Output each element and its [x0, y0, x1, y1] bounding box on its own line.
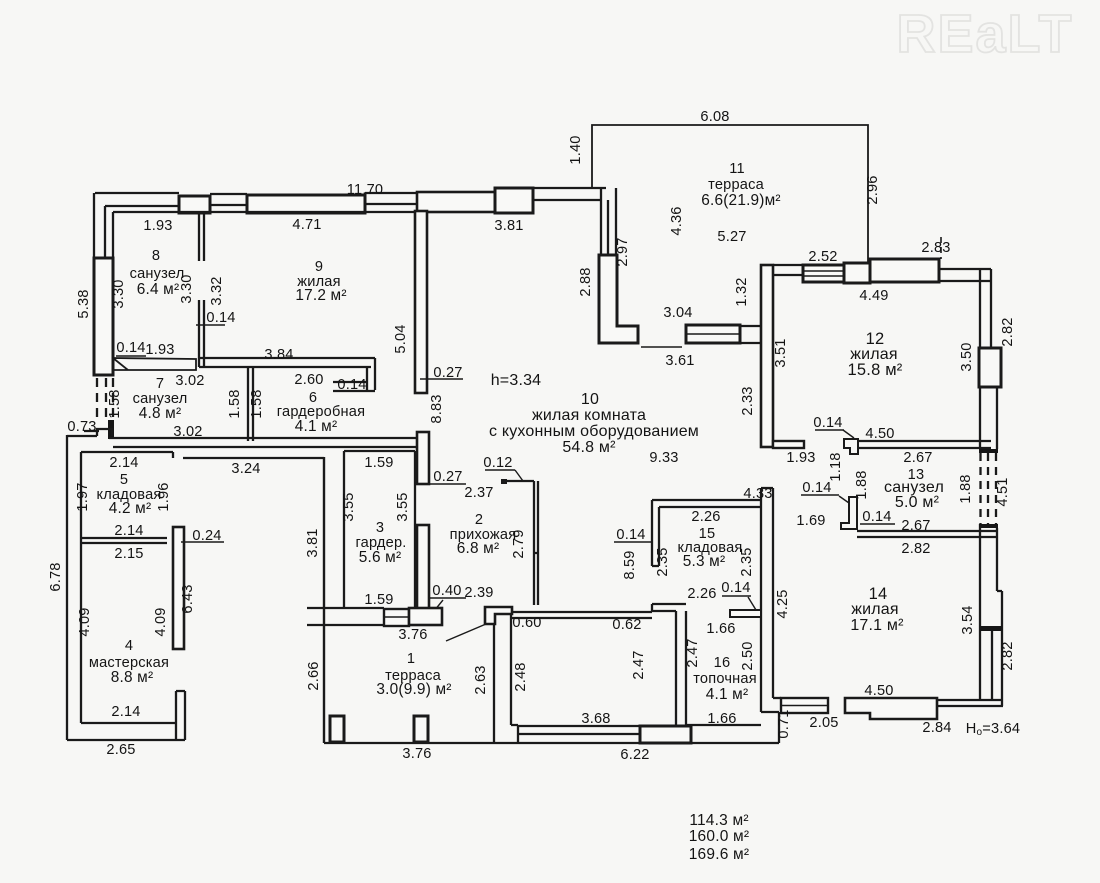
leader 0.12 [515, 470, 523, 481]
svg-text:3.30: 3.30 [179, 274, 195, 303]
window room 10 right tall with L foot [599, 255, 638, 343]
dim line 0.12 [485, 469, 515, 471]
wall: inner top line rooms 8-9 [113, 211, 415, 213]
wall: central column room10/12 upper [761, 265, 773, 447]
svg-text:2.66: 2.66 [306, 661, 322, 690]
svg-text:1.59: 1.59 [364, 592, 393, 608]
wall: top exterior rooms 8-9 outer line [95, 192, 179, 194]
svg-text:4.51: 4.51 [995, 477, 1011, 506]
svg-text:8.83: 8.83 [429, 394, 445, 423]
svg-text:4.25: 4.25 [775, 589, 791, 618]
window 2.52 [803, 265, 844, 282]
wall: prihozhaya right [534, 481, 538, 605]
svg-text:3.61: 3.61 [665, 353, 694, 369]
svg-text:17.1 м²: 17.1 м² [850, 617, 904, 634]
svg-text:0.60: 0.60 [512, 615, 541, 631]
wall: left exterior upper block [94, 193, 179, 258]
window left wall tall [94, 258, 113, 375]
svg-text:3.50: 3.50 [959, 342, 975, 371]
window 2.83 [870, 259, 939, 282]
svg-text:2.14: 2.14 [114, 523, 143, 539]
svg-text:6.08: 6.08 [700, 109, 729, 125]
wall: top wall room 10 right part [533, 188, 606, 200]
wall: shelf divider 15/16 [730, 610, 761, 617]
svg-text:3.02: 3.02 [173, 424, 202, 440]
wall: room 10 bottom band [512, 612, 652, 618]
terrace 11 outline [592, 125, 868, 262]
wall: room 10 top-right corner down [601, 188, 616, 255]
window 3.04 opening [686, 325, 740, 343]
svg-text:4.49: 4.49 [859, 288, 888, 304]
svg-text:6.43: 6.43 [180, 584, 196, 613]
svg-text:17.2 м²: 17.2 м² [295, 287, 346, 304]
svg-text:3.24: 3.24 [231, 461, 260, 477]
svg-text:2.67: 2.67 [903, 450, 932, 466]
svg-text:3.30: 3.30 [111, 279, 127, 308]
wall: room 4 right lower [176, 691, 185, 740]
svg-text:9: 9 [315, 259, 323, 275]
dim line 0.14 san13 [801, 494, 839, 496]
svg-text:2: 2 [475, 512, 483, 528]
svg-text:0.40: 0.40 [432, 583, 461, 599]
wall: central block left [323, 457, 325, 743]
wall: room 14 bottom left line [773, 697, 781, 699]
svg-text:0.27: 0.27 [433, 469, 462, 485]
svg-text:6.22: 6.22 [620, 747, 649, 763]
leader 0.14 shelf [748, 597, 756, 610]
svg-text:5.38: 5.38 [76, 289, 92, 318]
wall: tall divider right of rooms 5/4 [173, 527, 184, 649]
svg-text:6.6(21.9)м²: 6.6(21.9)м² [701, 192, 781, 209]
svg-text:2.14: 2.14 [111, 704, 140, 720]
svg-text:4.71: 4.71 [292, 217, 321, 233]
counter room 7 [113, 358, 196, 370]
svg-text:4.2 м²: 4.2 м² [109, 500, 152, 517]
svg-text:0.14: 0.14 [802, 480, 831, 496]
svg-text:5.04: 5.04 [393, 324, 409, 353]
post 2 terrace [414, 716, 428, 742]
svg-text:6.4 м²: 6.4 м² [137, 281, 180, 298]
svg-text:8.8 м²: 8.8 м² [111, 669, 154, 686]
svg-text:1.93: 1.93 [786, 450, 815, 466]
wall: right exterior lower [937, 524, 1003, 706]
wall: bottom of rooms 3/2 [307, 608, 384, 625]
svg-text:2.52: 2.52 [808, 249, 837, 265]
dim line 0.27 divider [429, 483, 466, 485]
svg-text:3.55: 3.55 [341, 492, 357, 521]
dim line 0.40 [429, 597, 466, 599]
svg-text:2.88: 2.88 [578, 267, 594, 296]
svg-text:2.47: 2.47 [631, 650, 647, 679]
svg-text:2.05: 2.05 [809, 715, 838, 731]
wall: stub 1.93 right of column [773, 441, 804, 448]
svg-text:4.36: 4.36 [669, 206, 685, 235]
window 4.71 [247, 195, 365, 213]
svg-text:0.12: 0.12 [483, 455, 512, 471]
svg-text:2.67: 2.67 [901, 518, 930, 534]
jamb room 12 door [844, 439, 858, 454]
svg-text:4.1 м²: 4.1 м² [706, 686, 749, 703]
wall: kladovaya 15 top [652, 500, 761, 507]
svg-text:2.82: 2.82 [1000, 317, 1016, 346]
svg-text:4: 4 [125, 638, 133, 654]
door threshold room 14 2.05 [781, 698, 828, 713]
door threshold room 3 [384, 609, 409, 626]
svg-text:1.66: 1.66 [707, 711, 736, 727]
svg-text:3.55: 3.55 [395, 492, 411, 521]
svg-text:2.14: 2.14 [109, 455, 138, 471]
svg-text:1.66: 1.66 [706, 621, 735, 637]
svg-text:0.62: 0.62 [612, 617, 641, 633]
leader 0.14 room12 [843, 430, 854, 438]
svg-text:1.97: 1.97 [75, 482, 91, 511]
wall: top right of window to divider [365, 193, 417, 204]
svg-text:8.59: 8.59 [622, 550, 638, 579]
wall: corner piece right of terrace door [485, 607, 512, 624]
svg-text:4.50: 4.50 [864, 683, 893, 699]
svg-text:0.14: 0.14 [616, 527, 645, 543]
wall: topochnaya 16 top-left L [652, 604, 686, 611]
wall: divider rooms 7/6 [248, 367, 253, 441]
wall: divider rooms 8/9 upper [199, 213, 204, 261]
window top room 10 [495, 188, 533, 213]
svg-text:3.02: 3.02 [175, 373, 204, 389]
svg-text:11.70: 11.70 [347, 182, 383, 198]
svg-text:2.82: 2.82 [1000, 641, 1016, 670]
svg-text:2.60: 2.60 [294, 372, 323, 388]
wall: stub above corner 0.73 [108, 420, 114, 439]
svg-text:4.50: 4.50 [865, 426, 894, 442]
svg-text:2.15: 2.15 [114, 546, 143, 562]
svg-text:с кухонным оборудованием: с кухонным оборудованием [489, 423, 699, 440]
window top-left small [179, 196, 210, 213]
wall: room 12 bottom 4.50 [857, 441, 991, 448]
svg-text:5.0 м²: 5.0 м² [895, 494, 940, 511]
chimney block bottom band [640, 726, 691, 743]
svg-text:169.6 м²: 169.6 м² [689, 846, 750, 863]
wall: bottom topochnaya [686, 724, 761, 726]
svg-text:Но=3.64: Но=3.64 [966, 721, 1020, 738]
svg-text:2.35: 2.35 [739, 547, 755, 576]
wall piece right of threshold [409, 608, 442, 625]
svg-text:3.0(9.9) м²: 3.0(9.9) м² [376, 681, 451, 698]
svg-text:1.58: 1.58 [107, 389, 123, 418]
svg-text:6.78: 6.78 [48, 562, 64, 591]
svg-text:2.37: 2.37 [464, 485, 493, 501]
dim line 0.14 san13 lower [860, 523, 895, 525]
svg-text:2.39: 2.39 [464, 585, 493, 601]
svg-text:1.40: 1.40 [568, 135, 584, 164]
svg-text:3.51: 3.51 [773, 338, 789, 367]
wall: prihozhaya top [502, 480, 534, 482]
dim line 0.14 counter [116, 355, 146, 357]
svg-text:жилая: жилая [851, 601, 899, 618]
svg-text:10: 10 [581, 391, 599, 408]
wall: terrace 1 right [494, 614, 518, 742]
svg-text:2.63: 2.63 [473, 665, 489, 694]
svg-text:3.81: 3.81 [494, 218, 523, 234]
svg-text:3.76: 3.76 [398, 627, 427, 643]
leader 0.14 san13 [839, 496, 849, 503]
svg-text:2.83: 2.83 [921, 240, 950, 256]
wall: band A bottom of rooms 7/6 [67, 429, 417, 447]
svg-text:0.24: 0.24 [192, 528, 221, 544]
wall: topochnaya 16 left [676, 611, 686, 726]
svg-text:0.14: 0.14 [862, 509, 891, 525]
leader terrace door [446, 624, 486, 641]
svg-text:2.47: 2.47 [685, 638, 701, 667]
wall: central column rooms 15/16 vs 14 [761, 488, 773, 712]
svg-text:4.09: 4.09 [153, 607, 169, 636]
svg-text:0.71: 0.71 [776, 709, 792, 738]
wall: right end of 3.84 wall down [333, 358, 375, 391]
svg-text:h=3.34: h=3.34 [491, 372, 542, 389]
svg-text:0.14: 0.14 [206, 310, 235, 326]
svg-text:9.33: 9.33 [649, 450, 678, 466]
dashed tick above window 2.83 [940, 237, 942, 259]
svg-text:1.93: 1.93 [145, 342, 174, 358]
bottom exterior band center [517, 726, 779, 743]
dim line 0.24 [181, 541, 224, 543]
wall: bottom of room 4 [67, 723, 185, 740]
svg-text:2.33: 2.33 [740, 386, 756, 415]
svg-text:1.58: 1.58 [227, 389, 243, 418]
post 1 terrace [330, 716, 344, 742]
svg-text:6.8 м²: 6.8 м² [457, 540, 500, 557]
svg-text:1.96: 1.96 [156, 482, 172, 511]
wall: divider rooms 8/9 lower with 0.14 tab [199, 300, 204, 367]
svg-text:4.1 м²: 4.1 м² [295, 418, 338, 435]
svg-text:5.3 м²: 5.3 м² [683, 553, 726, 570]
svg-text:3.32: 3.32 [209, 276, 225, 305]
svg-text:терраса: терраса [708, 177, 764, 193]
svg-text:2.79: 2.79 [511, 529, 527, 558]
wall: room 2/3 divider upper [417, 432, 429, 484]
jamb san13 [841, 497, 857, 529]
svg-text:0.14: 0.14 [813, 415, 842, 431]
svg-text:топочная: топочная [693, 671, 757, 687]
wall: room 12 top right [939, 269, 991, 281]
svg-text:3.84: 3.84 [264, 347, 293, 363]
lower-left block: room 5 inner top [81, 452, 173, 458]
svg-text:0.73: 0.73 [67, 419, 96, 435]
wall: san13 bottom [857, 531, 997, 537]
wall: black band right wall [980, 626, 1002, 631]
wall: band column to window 2.52 [773, 265, 804, 275]
window room 14 bottom 2.84 [845, 698, 937, 719]
svg-text:16: 16 [714, 655, 731, 671]
wall: top wall room 10 left part [417, 192, 497, 212]
svg-text:5.27: 5.27 [717, 229, 746, 245]
dim line 0.14 kladovaya left [614, 541, 652, 543]
svg-text:0.14: 0.14 [116, 340, 145, 356]
dim line 0.27 room 10 [420, 378, 463, 380]
wall: step below column to terrace line [761, 712, 779, 743]
terrace 1 bottom line [324, 742, 517, 744]
svg-text:2.50: 2.50 [740, 641, 756, 670]
svg-text:54.8 м²: 54.8 м² [562, 439, 616, 456]
svg-text:0.27: 0.27 [433, 365, 462, 381]
svg-text:5: 5 [120, 472, 128, 488]
svg-text:3.81: 3.81 [305, 528, 321, 557]
svg-text:1.93: 1.93 [143, 218, 172, 234]
svg-text:2.48: 2.48 [513, 662, 529, 691]
svg-text:1.18: 1.18 [828, 452, 844, 481]
wall: room 12 top-left corner [844, 263, 870, 283]
svg-text:1.32: 1.32 [734, 277, 750, 306]
wall: right exterior below window [980, 387, 997, 449]
svg-text:жилая комната: жилая комната [532, 407, 646, 424]
dim line 3.61 [641, 346, 682, 348]
svg-text:2.26: 2.26 [687, 586, 716, 602]
svg-text:REaLT: REaLT [896, 4, 1073, 64]
wall: dashed opening below window [97, 378, 113, 423]
svg-text:2.65: 2.65 [106, 742, 135, 758]
svg-text:3.04: 3.04 [663, 305, 692, 321]
wall: right exterior upper [980, 269, 991, 348]
dim line 0.14 room12 [815, 429, 844, 431]
wall: between windows [210, 194, 247, 205]
svg-text:4.33: 4.33 [743, 486, 772, 502]
svg-text:0.14: 0.14 [337, 377, 366, 393]
svg-text:15.8 м²: 15.8 м² [848, 361, 903, 379]
svg-text:2.82: 2.82 [901, 541, 930, 557]
svg-text:1.59: 1.59 [364, 455, 393, 471]
svg-text:санузел: санузел [130, 266, 185, 282]
svg-text:2.97: 2.97 [615, 237, 631, 266]
window right wall room 12 [979, 348, 1001, 387]
lower-left block: outer left wall [67, 435, 81, 740]
dim line 0.14 room9 [196, 324, 225, 326]
svg-text:1.58: 1.58 [249, 389, 265, 418]
svg-text:3.76: 3.76 [402, 746, 431, 762]
dim line 0.14 shelf [722, 595, 751, 597]
svg-text:2.26: 2.26 [691, 509, 720, 525]
wall: divider rooms 9/10 [415, 211, 427, 393]
leader 0.40 [430, 600, 443, 616]
wall: kladovaya 15 left [652, 500, 659, 566]
svg-text:2.96: 2.96 [865, 175, 881, 204]
svg-text:7: 7 [156, 376, 164, 392]
wall: band to central column [740, 326, 761, 343]
svg-text:3: 3 [376, 520, 384, 536]
svg-text:0.14: 0.14 [721, 580, 750, 596]
wall: 3.24 line [183, 457, 324, 459]
wall: divider rooms 5/4 [81, 538, 167, 543]
wall: right dashed opening [981, 453, 997, 524]
svg-text:114.3 м²: 114.3 м² [689, 812, 748, 829]
svg-text:1.69: 1.69 [796, 513, 825, 529]
svg-text:1.88: 1.88 [854, 470, 870, 499]
svg-text:2.35: 2.35 [655, 547, 671, 576]
svg-text:3.68: 3.68 [581, 711, 610, 727]
svg-text:8: 8 [152, 248, 160, 264]
svg-text:11: 11 [729, 161, 745, 177]
wall: room 2/3 divider lower [417, 525, 429, 610]
svg-text:5.6 м²: 5.6 м² [359, 549, 402, 566]
svg-text:160.0 м²: 160.0 м² [689, 828, 750, 845]
svg-text:1.88: 1.88 [958, 474, 974, 503]
svg-text:4.09: 4.09 [77, 607, 93, 636]
wall 3.84 divider rooms 9/6 [199, 358, 375, 367]
svg-text:1: 1 [407, 651, 415, 667]
svg-text:3.54: 3.54 [960, 605, 976, 634]
svg-text:4.8 м²: 4.8 м² [139, 405, 182, 422]
room 3 walls [344, 451, 415, 608]
svg-text:2.84: 2.84 [922, 720, 951, 736]
